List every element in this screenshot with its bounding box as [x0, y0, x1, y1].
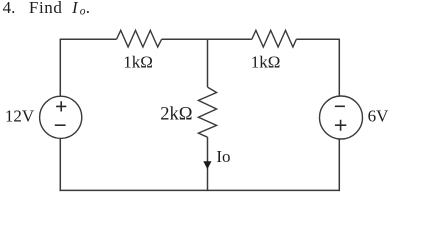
svg-text:1kΩ: 1kΩ — [251, 53, 281, 72]
wire: top rail left segment — [60, 38, 116, 40]
source V2 6V circle — [320, 96, 363, 139]
svg-text:Io: Io — [216, 147, 230, 166]
wire: left branch upper — [59, 39, 61, 97]
svg-text:1kΩ: 1kΩ — [123, 53, 153, 72]
wire: top rail middle segment — [162, 38, 252, 40]
wire: right branch lower — [338, 139, 340, 191]
wire: bottom rail — [60, 189, 340, 191]
resistor R1 1k zigzag — [117, 30, 162, 47]
svg-text:12V: 12V — [5, 107, 35, 126]
wire: right branch upper — [338, 39, 340, 97]
title: 4. Find Io. — [3, 0, 90, 17]
svg-text:4.: 4. — [3, 0, 16, 17]
V1 plus sign — [56, 101, 66, 111]
current arrow Io head — [203, 161, 211, 169]
V1 minus sign — [55, 124, 66, 126]
svg-text:6V: 6V — [368, 107, 390, 126]
V2 minus sign — [335, 105, 345, 107]
svg-text:Find: Find — [29, 0, 63, 17]
wire: middle branch upper — [207, 39, 209, 87]
svg-text:.: . — [86, 0, 90, 17]
V2 plus sign — [335, 120, 346, 131]
resistor R3 2k vertical zigzag — [198, 87, 216, 137]
wire: top rail right segment — [296, 38, 339, 40]
resistor R2 1k zigzag — [252, 30, 296, 47]
wire: middle branch lower — [207, 137, 209, 191]
svg-text:I: I — [71, 0, 79, 17]
source V1 12V circle — [40, 96, 82, 138]
wire: left branch lower — [59, 138, 61, 191]
svg-text:2kΩ: 2kΩ — [160, 104, 192, 124]
